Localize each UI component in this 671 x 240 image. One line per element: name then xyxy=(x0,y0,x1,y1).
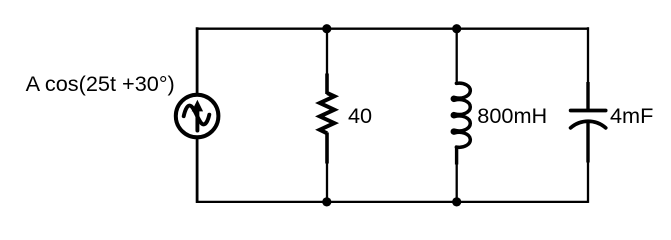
inductor L coil xyxy=(452,83,470,147)
resistor R lead bottom xyxy=(325,133,329,164)
node junction dot top resistor xyxy=(322,24,331,33)
node junction dot bottom inductor xyxy=(452,197,461,206)
wire resistor branch top xyxy=(326,27,328,75)
wire capacitor branch top xyxy=(587,27,589,83)
current source arrowhead xyxy=(192,100,203,112)
inductor L lead bottom xyxy=(455,146,458,164)
capacitor C top plate xyxy=(571,109,606,113)
resistor value label 40 xyxy=(348,105,372,127)
capacitor C lead bottom xyxy=(586,122,589,163)
wire resistor branch bottom xyxy=(326,162,328,203)
current source arrow shaft xyxy=(195,108,199,131)
wire bottom rail xyxy=(196,201,588,203)
capacitor C curved bottom plate xyxy=(571,121,606,128)
inductor value label 800mH xyxy=(477,105,547,127)
capacitor value label 4mF xyxy=(610,105,653,127)
wire top rail xyxy=(196,28,588,30)
wire left vertical upper xyxy=(196,27,199,94)
node junction dot top inductor xyxy=(452,24,461,33)
current source sine wave xyxy=(184,106,210,125)
wire inductor branch top xyxy=(456,27,458,83)
wire capacitor branch bottom xyxy=(587,161,589,203)
source value label xyxy=(26,73,175,95)
capacitor C lead top xyxy=(586,82,589,110)
node junction dot bottom resistor xyxy=(322,197,331,206)
resistor R zigzag xyxy=(320,93,335,133)
resistor R lead top xyxy=(325,74,329,95)
current source U1 circle xyxy=(176,95,219,138)
wire left vertical lower xyxy=(196,138,199,203)
wire inductor branch bottom xyxy=(456,163,458,203)
